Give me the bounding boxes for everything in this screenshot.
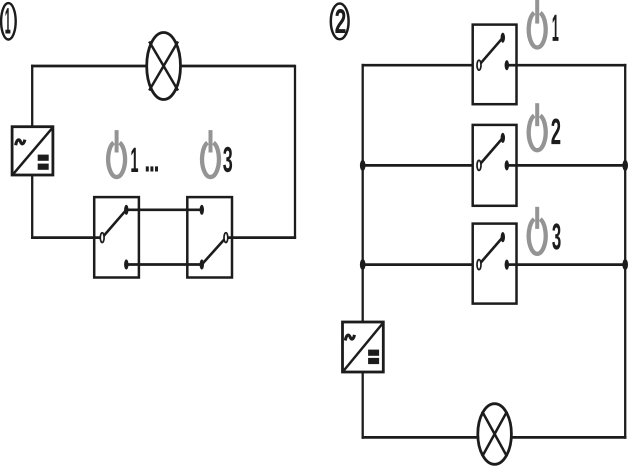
wire: circuit1 bottom horizontal from S2: [228, 236, 296, 239]
AC/DC converter U2: [343, 322, 384, 372]
power button icon (circuit2, row 1): [529, 0, 546, 48]
junction: left vertical / row2: [360, 160, 366, 171]
wire: link between S1 and S2 top: [126, 208, 202, 211]
wire: circuit1 left vertical: [31, 65, 33, 126]
wire: circuit2 row1 left segment: [362, 64, 479, 67]
wire: circuit1 right vertical: [294, 65, 296, 239]
switch S4 (circuit 2, row 2): [473, 125, 517, 206]
wire: circuit2 bottom horizontal to lamp: [362, 436, 479, 439]
label 3 (circuit1 switch numbering): [223, 147, 232, 173]
switch S5 (circuit 2, row 3): [473, 224, 517, 304]
AC/DC converter U1: [12, 127, 53, 175]
circled label 1 (circuit 1 identifier): [1, 3, 16, 39]
junction: right vertical / row3: [622, 259, 628, 270]
switch S2 (two-way switch box, circuit 1 right): [187, 197, 232, 277]
wire: link between S1 and S2 bottom: [126, 263, 202, 266]
power button icon (circuit2, row 3): [529, 207, 546, 254]
circled label 2 (circuit 2 identifier): [331, 4, 349, 40]
wire: circuit2 row3 right segment: [507, 263, 627, 266]
wire: circuit2 left vertical upper: [362, 64, 364, 322]
label 3 (circuit2 row3): [552, 223, 560, 249]
wire: circuit1 bottom horizontal into switch S1: [31, 236, 101, 239]
wire: circuit1 left vertical below converter: [31, 175, 33, 239]
wire: circuit2 row1 right segment: [507, 64, 627, 67]
wire: circuit2 row2 left segment: [362, 164, 479, 167]
wire: circuit1 top-left horizontal to lamp: [31, 65, 147, 68]
label 1 (circuit2 row1): [553, 15, 559, 41]
junction: right vertical / row2: [622, 160, 628, 171]
wire: circuit2 left vertical below converter: [362, 372, 364, 439]
wire: circuit2 bottom horizontal from lamp: [511, 436, 627, 439]
junction: left vertical / row3: [360, 259, 366, 270]
lamp E2: [478, 404, 512, 465]
power button icon (circuit2, row 2): [529, 103, 546, 150]
wire: circuit1 top-right horizontal from lamp: [180, 65, 295, 68]
label 2 (circuit2 row2): [551, 119, 560, 145]
label 1 ... (circuit1 switch numbering): [131, 148, 138, 172]
power button icon (circuit1, switch 3): [202, 130, 219, 177]
power button icon (circuit1, switch 1): [108, 130, 125, 177]
wire: circuit2 row3 left segment: [362, 263, 479, 266]
switch S3 (circuit 2, row 1): [473, 25, 517, 105]
wire: circuit2 row2 right segment: [507, 164, 627, 167]
lamp E1: [147, 33, 181, 100]
switch S1 (two-way switch box, circuit 1 left): [94, 197, 139, 277]
wire: circuit2 right vertical: [624, 64, 626, 439]
